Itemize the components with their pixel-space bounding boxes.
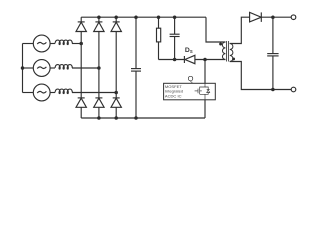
wire snubber bottom (159, 59, 185, 61)
node C1 top junction (134, 15, 138, 19)
wire secondary bottom to output return (230, 62, 292, 90)
node primary polarity dot (219, 43, 222, 46)
wire phase2 to leg2 (72, 67, 99, 69)
diode D1 bridge leg1 top (76, 17, 86, 98)
diode D4 bridge leg1 bottom (76, 98, 86, 118)
node leg3 top rail junction (114, 15, 118, 19)
transformer T1 core (227, 41, 229, 62)
diode D5 bridge leg2 bottom (94, 98, 104, 118)
transformer T1 primary (222, 42, 225, 60)
node leg3 bottom rail junction (114, 116, 118, 120)
diode D3 bridge leg3 top (111, 17, 121, 98)
svg-text:ACDC IC: ACDC IC (165, 93, 182, 98)
AC source V3 (23, 84, 51, 101)
capacitor C1 bulk (131, 17, 141, 118)
wire top rail drop to primary (206, 17, 226, 42)
node AC bus junction (21, 66, 25, 70)
AC source V1 (23, 35, 51, 52)
node drain junction (203, 58, 207, 62)
IC U1 MOSFET Integrated ACDC IC box (164, 83, 216, 100)
svg-text:DS: DS (185, 47, 193, 54)
terminal output minus (291, 87, 296, 92)
diode D6 bridge leg3 bottom (111, 98, 121, 118)
node output cap bottom junction (271, 88, 275, 92)
node phase1-leg1 junction (79, 42, 83, 46)
node leg2 top rail junction (97, 15, 101, 19)
node leg2 bottom rail junction (97, 116, 101, 120)
resistor R1 snubber (157, 17, 161, 59)
wire source to bottom rail (204, 100, 206, 118)
wire secondary top to output diode (230, 17, 250, 43)
transformer T1 secondary (230, 44, 233, 62)
diode D7 output (250, 12, 292, 22)
inductor L2 (50, 65, 72, 70)
node secondary polarity dot (232, 57, 235, 60)
transistor Q1 MOSFET symbol (195, 83, 210, 100)
diode DS snubber (184, 55, 225, 63)
diode D2 bridge leg2 top (94, 17, 104, 98)
inductor L3 (50, 89, 72, 94)
wire drain (204, 60, 206, 84)
node C2 bottom junction (173, 58, 177, 62)
node output cap top junction (271, 15, 275, 19)
AC source V2 (23, 60, 51, 77)
capacitor C3 output (267, 17, 278, 89)
inductor L1 (50, 40, 72, 45)
svg-text:Q: Q (188, 74, 194, 83)
wire top DC rail (81, 16, 206, 18)
wire phase3 to leg3 (72, 92, 116, 94)
node phase2-leg2 junction (97, 66, 101, 70)
wire bottom DC rail (81, 117, 205, 119)
node C2 top junction (173, 15, 177, 19)
terminal output plus (291, 15, 296, 20)
wire phase1 to leg1 (72, 43, 81, 45)
node R1 top junction (157, 15, 161, 19)
wire left AC bus vertical (22, 44, 24, 93)
node C1 bottom junction (134, 116, 138, 120)
capacitor C2 snubber (170, 17, 180, 59)
node phase3-leg3 junction (114, 91, 118, 95)
